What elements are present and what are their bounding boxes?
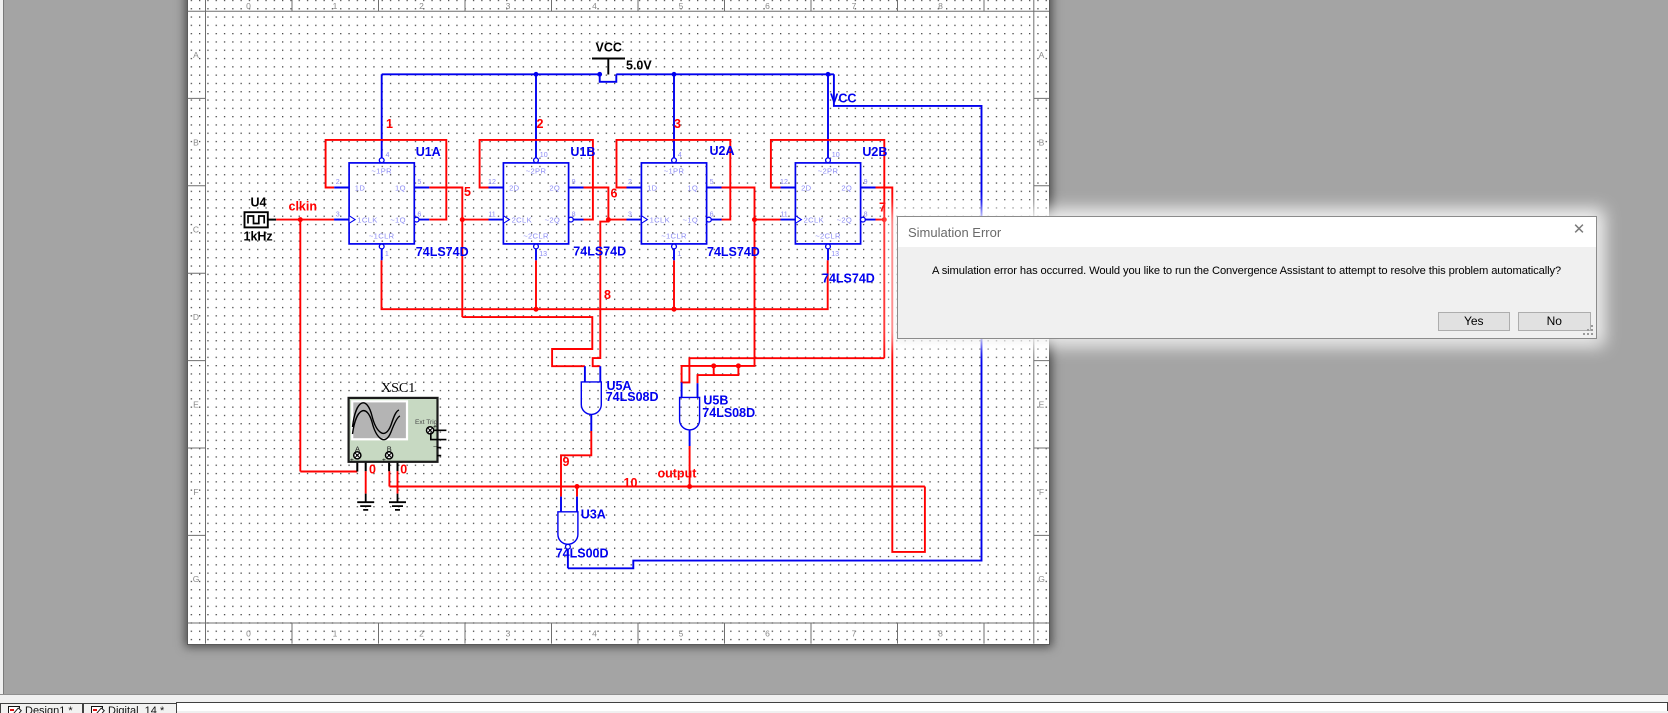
svg-text:74LS74D: 74LS74D — [416, 245, 469, 259]
svg-text:8: 8 — [938, 1, 943, 11]
svg-text:2CLK: 2CLK — [804, 216, 824, 225]
svg-text:B: B — [1039, 137, 1045, 147]
wire U1A ~PR drop from rail — [381, 74, 383, 158]
junction on VCC rail at U1B — [534, 72, 539, 77]
wire scope A minus to ground — [365, 471, 367, 493]
svg-text:F: F — [193, 487, 198, 497]
svg-text:1: 1 — [385, 250, 389, 258]
wire U5B input jog b — [698, 366, 739, 383]
svg-text:D: D — [193, 312, 199, 322]
svg-text:2: 2 — [537, 117, 544, 131]
svg-text:2D: 2D — [801, 184, 812, 193]
svg-text:12: 12 — [488, 178, 496, 186]
svg-text:C: C — [193, 225, 199, 235]
wire net7 down right side — [883, 220, 885, 359]
svg-text:74LS08D: 74LS08D — [606, 390, 659, 404]
wire U1A CLK stub red-blue — [334, 219, 349, 221]
wire net6 down to U5A input B — [593, 220, 609, 367]
svg-text:~1CLR: ~1CLR — [369, 232, 395, 241]
svg-text:E: E — [193, 400, 199, 410]
svg-text:13: 13 — [831, 250, 839, 258]
wire U5A input A stub — [584, 366, 586, 382]
wire U5B output stub — [689, 430, 691, 446]
svg-text:2: 2 — [419, 1, 424, 11]
svg-text:~1Q: ~1Q — [390, 216, 406, 225]
D flip-flop U1A (74LS74D) — [334, 151, 429, 260]
wire U5B input jog a — [713, 366, 715, 375]
svg-text:6: 6 — [710, 211, 714, 219]
svg-text:5.0V: 5.0V — [626, 59, 652, 73]
svg-text:6: 6 — [417, 211, 421, 219]
svg-text:3: 3 — [506, 629, 511, 639]
svg-text:A: A — [1039, 50, 1045, 60]
wire U1B ~PR drop from rail — [535, 74, 537, 158]
wire U5A input B stub — [599, 366, 601, 382]
junction U5B input cluster a — [711, 363, 716, 368]
svg-text:3: 3 — [506, 1, 511, 11]
junction net8 at U2A — [672, 307, 677, 312]
wire U2A ~PR drop from rail — [673, 74, 675, 158]
svg-text:7: 7 — [852, 1, 857, 11]
svg-text:2: 2 — [419, 629, 424, 639]
svg-text:7: 7 — [852, 629, 857, 639]
svg-text:1CLK: 1CLK — [650, 216, 670, 225]
svg-text:1D: 1D — [355, 184, 366, 193]
junction on VCC rail at VCC symbol — [597, 72, 602, 77]
svg-text:8: 8 — [604, 288, 611, 302]
svg-text:2: 2 — [628, 178, 632, 186]
svg-text:5: 5 — [679, 1, 684, 11]
Simulation Error dialog — [897, 216, 1597, 339]
svg-text:13: 13 — [539, 250, 547, 258]
svg-text:E: E — [1039, 400, 1045, 410]
svg-text:~2Q: ~2Q — [837, 216, 853, 225]
svg-text:3: 3 — [628, 211, 632, 219]
svg-text:G: G — [193, 574, 200, 584]
svg-text:8: 8 — [572, 211, 576, 219]
svg-text:VCC: VCC — [596, 41, 622, 55]
wire U1A ~Q to 1D feedback loop — [326, 140, 447, 220]
svg-text:~2CLR: ~2CLR — [815, 232, 841, 241]
svg-text:2D: 2D — [509, 184, 520, 193]
wire U2A ~Q to 1D feedback loop — [617, 140, 731, 220]
svg-text:U3A: U3A — [581, 507, 606, 521]
svg-text:1: 1 — [677, 250, 681, 258]
svg-text:_: _ — [366, 456, 371, 463]
svg-text:5: 5 — [464, 185, 471, 199]
power symbol VCC 5.0V — [592, 59, 625, 75]
wire U2B Q to output net right side — [875, 188, 925, 552]
wire scope B minus lead — [393, 455, 398, 471]
svg-text:U1A: U1A — [416, 145, 441, 159]
svg-text:0: 0 — [369, 463, 376, 477]
junction on VCC rail at U2A — [672, 72, 677, 77]
D flip-flop U2A (74LS74D) — [627, 151, 722, 260]
svg-text:5: 5 — [417, 178, 421, 186]
wire U5A output stub — [590, 414, 592, 431]
junction output net at U5B — [687, 484, 692, 489]
svg-text:~1PR: ~1PR — [371, 166, 392, 175]
wire U5B input A stub — [681, 382, 683, 397]
svg-text:5: 5 — [710, 178, 714, 186]
wire net10 U5B output down — [689, 446, 691, 487]
wire scope B minus to ground — [397, 471, 399, 493]
wire branch to U2B CLK — [755, 219, 781, 221]
svg-text:11: 11 — [780, 211, 787, 219]
svg-text:8: 8 — [864, 211, 868, 219]
D flip-flop U1B (74LS74D) — [488, 151, 583, 260]
svg-text:U2B: U2B — [862, 145, 887, 159]
ground symbol at scope channel B — [389, 494, 406, 510]
svg-text:0: 0 — [246, 1, 251, 11]
wire net7a from U2A Q — [721, 188, 755, 220]
wire net5 branch to U1B CLK — [462, 219, 488, 221]
svg-text:0: 0 — [246, 629, 251, 639]
svg-text:1Q: 1Q — [395, 184, 406, 193]
svg-text:3: 3 — [336, 211, 340, 219]
junction output net at U3A input — [575, 484, 580, 489]
junction U2A Q net to U2B CLK — [752, 217, 757, 222]
svg-text:6: 6 — [765, 1, 770, 11]
wire net9 U5A output to U3A input A — [561, 431, 591, 497]
svg-text:1: 1 — [333, 629, 338, 639]
junction net8 at U1B — [534, 307, 539, 312]
wire U2B ~PR drop from rail — [827, 74, 829, 158]
wire U4 output lead — [268, 219, 276, 221]
svg-text:74LS74D: 74LS74D — [573, 245, 626, 259]
svg-text:7: 7 — [879, 201, 886, 215]
svg-text:2Q: 2Q — [549, 184, 560, 193]
svg-text:2CLK: 2CLK — [512, 216, 532, 225]
wire net7 horizontal to U5B input A — [682, 358, 885, 382]
wire U1B ~Q to 2D feedback loop — [480, 140, 593, 220]
svg-text:output: output — [658, 467, 698, 481]
svg-text:~2CLR: ~2CLR — [523, 232, 549, 241]
svg-text:4: 4 — [386, 151, 390, 159]
wire scope A plus lead — [356, 459, 358, 472]
clock source U4 1kHz — [245, 212, 268, 227]
svg-text:U1B: U1B — [570, 145, 595, 159]
svg-text:5: 5 — [679, 629, 684, 639]
svg-text:4: 4 — [678, 151, 682, 159]
svg-text:F: F — [1039, 487, 1044, 497]
wire net6 branch to U2A CLK — [608, 219, 626, 221]
junction net6 to U2A CLK — [606, 217, 611, 222]
wire clkin vertical down to scope — [299, 220, 301, 472]
svg-text:6: 6 — [611, 187, 618, 201]
wire net8 clear line — [382, 260, 828, 309]
svg-text:G: G — [1038, 574, 1045, 584]
svg-text:1D: 1D — [647, 184, 658, 193]
junction net7 on U2B loop — [882, 217, 887, 222]
wire net5 from U1A Q — [429, 188, 462, 318]
wire net5 down to U5A input A — [462, 317, 592, 366]
svg-text:clkin: clkin — [289, 200, 318, 214]
svg-text:1Q: 1Q — [687, 184, 698, 193]
svg-text:XSC1: XSC1 — [381, 381, 415, 396]
junction on VCC rail at U2B — [826, 72, 831, 77]
svg-text:_: _ — [398, 456, 403, 463]
wire U3A input B stub — [576, 497, 578, 512]
svg-text:2: 2 — [336, 178, 340, 186]
wire net6 from U1B Q — [584, 188, 609, 220]
svg-text:1: 1 — [333, 1, 338, 11]
wire U3A input A stub — [560, 497, 562, 512]
svg-text:U2A: U2A — [710, 144, 735, 158]
D flip-flop U2B (74LS74D) — [780, 151, 875, 260]
svg-text:9: 9 — [864, 178, 868, 186]
oscilloscope XSC1 — [349, 398, 447, 464]
svg-text:_: _ — [433, 440, 438, 447]
svg-text:4: 4 — [592, 1, 597, 11]
svg-text:10: 10 — [624, 476, 638, 490]
AND gate U5B (74LS08D) — [680, 397, 700, 430]
svg-text:74LS00D: 74LS00D — [556, 547, 609, 561]
svg-text:9: 9 — [563, 455, 570, 469]
svg-text:2Q: 2Q — [841, 184, 852, 193]
AND gate U5A (74LS08D) — [581, 382, 601, 415]
wire U2B ~Q to 2D feedback loop — [771, 140, 884, 220]
svg-text:~2PR: ~2PR — [526, 166, 547, 175]
wire VCC net right side loop — [568, 74, 982, 568]
wire U1B ~CLR drop — [535, 260, 537, 309]
wire U2A Q down to U5B input cluster — [682, 220, 755, 383]
svg-text:6: 6 — [765, 629, 770, 639]
svg-text:8: 8 — [938, 629, 943, 639]
svg-text:74LS74D: 74LS74D — [822, 272, 875, 286]
svg-text:U4: U4 — [251, 195, 267, 209]
svg-text:1CLK: 1CLK — [357, 216, 377, 225]
junction U5B input cluster b — [736, 363, 741, 368]
ground symbol at scope channel A — [357, 494, 374, 510]
svg-text:~2Q: ~2Q — [545, 216, 561, 225]
svg-text:1kHz: 1kHz — [244, 230, 273, 244]
wire U5B input B stub — [697, 383, 699, 397]
svg-text:0: 0 — [400, 463, 407, 477]
svg-text:~1CLR: ~1CLR — [661, 232, 687, 241]
svg-text:~1PR: ~1PR — [664, 166, 685, 175]
svg-text:10: 10 — [540, 151, 548, 159]
svg-text:B: B — [193, 137, 199, 147]
svg-text:~1Q: ~1Q — [683, 216, 699, 225]
wire VCC rail top horizontal — [382, 73, 600, 75]
svg-text:+: + — [382, 457, 386, 464]
wire U3A input B riser — [576, 487, 578, 497]
wire U3A output stub — [567, 544, 569, 568]
svg-text:11: 11 — [488, 211, 495, 219]
wire scope B plus lead — [388, 459, 390, 472]
wire clkin to scope channel A — [300, 471, 357, 473]
schematic sheet — [187, 0, 1050, 645]
svg-text:12: 12 — [780, 178, 788, 186]
svg-text:9: 9 — [572, 178, 576, 186]
wire VCC rail top horizontal right — [616, 73, 834, 75]
svg-text:74LS08D: 74LS08D — [702, 406, 755, 420]
wire scope B plus riser — [388, 471, 390, 486]
svg-text:4: 4 — [592, 629, 597, 639]
NAND gate U3A (74LS00D) — [558, 512, 578, 549]
wire U2A ~CLR drop — [673, 260, 675, 309]
wire output net horizontal — [389, 486, 925, 488]
svg-text:3: 3 — [674, 117, 681, 131]
svg-text:10: 10 — [832, 151, 840, 159]
svg-text:+: + — [350, 457, 354, 464]
svg-text:~2PR: ~2PR — [818, 166, 839, 175]
svg-text:A: A — [193, 50, 199, 60]
wire scope A minus lead — [361, 455, 366, 471]
svg-text:74LS74D: 74LS74D — [707, 245, 760, 259]
svg-text:1: 1 — [386, 117, 393, 131]
svg-text:VCC: VCC — [830, 92, 856, 106]
wire VCC rail notch under VCC symbol — [600, 74, 617, 82]
wire clkin horizontal to U1A CLK — [276, 219, 334, 221]
junction net5 to U1B CLK — [460, 217, 465, 222]
junction clkin net — [298, 217, 303, 222]
